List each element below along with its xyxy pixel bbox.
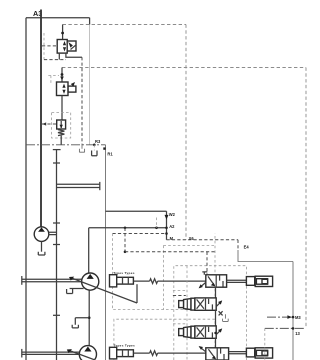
relief valve V2 internal arrow: [62, 84, 65, 94]
wire valve V2 riser dashed: [61, 68, 63, 83]
node junction dot 13: [292, 327, 295, 330]
tank symbol drain elbow cup: [72, 325, 78, 328]
tank symbol P1 drain cup: [67, 289, 73, 294]
wire V2 pilot sense dashed grey: [48, 75, 59, 77]
wire right header drop x89.6: [89, 18, 91, 25]
wire V1 drain stub left: [58, 53, 60, 60]
relief valve V2 pilot stage box: [68, 86, 76, 92]
wire grey drop x264.8: [264, 328, 266, 360]
solenoid arrow DV2: [216, 301, 221, 306]
solenoid SV2 cone: [184, 299, 191, 310]
spring REG1: [150, 279, 158, 284]
arrowhead solenoid DV4: [199, 346, 203, 350]
wire pilot grey dash y290.6: [173, 290, 187, 292]
svg-text:W2: W2: [169, 212, 176, 217]
enclosure dashed box E3 valve group: [174, 266, 247, 360]
svg-text:R3: R3: [95, 139, 101, 144]
wire R line corner down x105.5: [105, 145, 107, 360]
solenoid arrow DV3: [216, 329, 221, 334]
relief valve V1 pilot slash: [71, 45, 76, 49]
solenoid SV2 flange: [191, 298, 195, 310]
pump P1 circle: [82, 273, 99, 290]
solenoid arrow DV4: [200, 347, 206, 352]
wire grey pilot stub x156.5: [156, 218, 158, 228]
tank symbol mid cup: [223, 314, 229, 321]
node dot DV3 right: [214, 332, 216, 334]
pump P1 triangle: [87, 274, 94, 279]
wire REG2 link to spring: [133, 352, 149, 354]
plug X symbol mid: [219, 311, 223, 315]
cap mark above DV1: [202, 272, 207, 275]
svg-text:E4: E4: [244, 245, 250, 250]
pump P2 triangle: [84, 347, 91, 352]
gear pump P0 circle: [34, 227, 49, 242]
solenoid SV3 end cap: [179, 329, 184, 336]
valve DV1 body: [206, 275, 227, 287]
port P2 double line: [22, 352, 80, 354]
valve DV1 right port marks: [220, 275, 223, 286]
wire pilot grey dash y323.8: [173, 323, 187, 325]
enclosure grey dashed vertical x187: [186, 266, 188, 360]
node drain junction dot: [88, 316, 91, 319]
port S flange double line: [57, 184, 100, 187]
wire P1 case drain: [70, 288, 84, 290]
arrowhead V2 riser down: [60, 77, 64, 81]
svg-text:M: M: [170, 236, 174, 241]
pump P2 variable arrow diagonal: [68, 350, 95, 360]
wire V1 pilot sense dashed: [42, 45, 57, 47]
arrowhead V3 pilot: [42, 122, 46, 125]
arrowhead M3: [287, 315, 292, 319]
valve DV4 body: [206, 348, 229, 360]
arrowhead DV1 left arrow: [211, 283, 215, 287]
wire V3 drain to return: [60, 136, 62, 145]
svg-text:13: 13: [295, 331, 300, 336]
arrowhead DV4 left arrow: [212, 356, 216, 360]
wire P1 feedback vertical: [136, 284, 138, 303]
node junction dot A2 end: [165, 227, 168, 230]
wire M dashed line y233.5: [113, 233, 167, 235]
svg-text:X6: X6: [189, 236, 195, 241]
actuator CYL2 cap square: [246, 348, 254, 357]
wire X6 dashed drop x238: [237, 240, 239, 250]
enclosure dashed box valve V3: [52, 113, 71, 139]
actuator CYL1 inner box: [262, 279, 268, 283]
wire DV3 to DV4 connector: [215, 338, 217, 348]
arrowhead solenoid arrow DV3: [218, 328, 222, 332]
wire W2 drop vertical x166.5: [166, 211, 168, 240]
relief valve V3 arrowhead: [60, 125, 63, 129]
relief valve V3 internal arrow: [60, 121, 62, 128]
gear pump P0 outlet double line: [49, 232, 57, 234]
actuator CYL1 inner piston: [256, 279, 267, 285]
solenoid arrow DV1: [200, 282, 206, 287]
valve DV1 left arrow: [208, 276, 215, 285]
wire pilot dashed vertical x186: [185, 25, 187, 240]
tank symbol below gear pump: [38, 252, 45, 255]
node junction dot M3: [292, 316, 295, 319]
actuator CYL2 inner box: [262, 351, 268, 355]
regulator REG2 body box: [117, 350, 134, 357]
svg-text:R1: R1: [107, 152, 113, 157]
node junction dot V1 riser: [61, 32, 64, 35]
wire V3 pilot sense dashed: [42, 123, 57, 125]
relief valve V2 body: [57, 82, 69, 96]
wire pilot dashed line y24 to x186: [63, 24, 186, 26]
tank symbol T1 below x82: [79, 145, 84, 152]
valve DV3 divider: [205, 326, 207, 338]
wire DV1 link double line: [227, 280, 247, 282]
relief valve V1 body: [57, 40, 67, 54]
fitting tick y223: [53, 222, 60, 224]
enclosure dashed box E2 pump2 group: [114, 319, 215, 360]
wire drain dashed bus x82: [81, 57, 83, 145]
relief valve V1 pilot stage box: [67, 41, 76, 51]
gear pump P0 drain line: [41, 241, 43, 251]
wire main pressure line x41: [40, 10, 42, 227]
port S end cap: [99, 182, 101, 190]
valve DV3 body: [195, 326, 216, 338]
spring valve V3: [58, 130, 64, 136]
solenoid SV3 cone bar: [186, 327, 188, 337]
wire E4 line grey: [238, 250, 293, 360]
wire V2 to V3 line: [61, 96, 63, 121]
wire pump column x89 upper: [88, 228, 90, 273]
wire tank bus x56.5: [56, 150, 58, 360]
arrowhead P1 variable arrow: [69, 277, 74, 281]
wire pilot dashed vertical x306: [305, 68, 307, 329]
relief valve V2 pilot arrow: [71, 82, 75, 87]
regulator REG2 internal divider: [123, 350, 129, 357]
regulator REG1 body box: [117, 277, 134, 284]
wire pilot dashed y251.8: [125, 251, 215, 253]
regulator REG1 internal divider: [123, 277, 129, 284]
node R1 square junction: [103, 147, 105, 149]
valve DV3 crossed arrows: [197, 327, 204, 336]
actuator CYL2 outer body: [255, 348, 272, 358]
solenoid SV2 cone bar: [186, 299, 188, 309]
wire valve V1 riser: [62, 25, 64, 40]
wire 13 dash-dot line y328.4: [265, 327, 304, 329]
wire spring line to valve row4: [158, 352, 206, 354]
gear pump P0 triangle: [38, 227, 45, 231]
wire DV2 to DV3 connector: [215, 310, 217, 326]
fitting tick y315.3: [53, 314, 60, 316]
node junction dot pilot: [124, 251, 127, 254]
valve DV2 divider: [205, 298, 207, 310]
spring REG2: [150, 351, 158, 356]
fitting tick y244.5: [53, 244, 60, 246]
wire V1 drain stub right to x82: [66, 53, 82, 57]
node junction dot return header: [93, 144, 96, 147]
wire X6 dashed line y239.8: [167, 239, 239, 241]
wire M3 dash-dot arrow: [267, 316, 288, 318]
actuator CYL2 inner piston: [256, 350, 267, 356]
pump P2 circle: [79, 346, 96, 360]
valve DV2 right port marks: [209, 299, 213, 310]
node junction dot V2 riser: [61, 73, 64, 76]
svg-text:Types Types: Types Types: [113, 271, 135, 275]
arrowhead solenoid arrow DV2: [218, 300, 222, 304]
valve DV2 crossed arrows: [197, 299, 204, 308]
port P1 flange cap: [21, 276, 23, 285]
valve DV3 right port marks: [209, 327, 213, 338]
wire top header horizontal: [26, 17, 90, 19]
svg-text:A2: A2: [169, 224, 175, 229]
wire REG1 link to spring: [133, 280, 149, 282]
wire pilot dark dash y295.5: [173, 295, 186, 297]
wire tank line cap x56.5: [53, 149, 61, 151]
valve DV4 left arrow: [208, 349, 215, 358]
relief valve V3 body: [57, 120, 66, 129]
enclosure dashed bottom valve V1: [44, 59, 66, 61]
wire W2 line y211.2: [106, 210, 167, 212]
wire pilot dash-dot x125 drop: [124, 228, 126, 252]
relief valve V1 pilot arrow: [68, 42, 73, 48]
tank symbol T2 cup: [92, 151, 97, 156]
wire left vertical bus x26: [25, 18, 27, 360]
wire pilot dashed drop x207: [206, 252, 208, 275]
wire V2 pilot grey corner: [50, 76, 52, 84]
actuator CYL1 cap square: [246, 277, 254, 286]
solenoid SV3 flange: [191, 326, 195, 338]
wire DV4 link double line: [229, 352, 247, 354]
regulator REG1 cap box: [110, 275, 117, 287]
solenoid SV3 cone: [184, 327, 191, 338]
fitting tick y163: [53, 162, 60, 164]
node junction dot M end: [165, 232, 168, 235]
arrowhead W2 drop: [165, 215, 169, 220]
wire pilot dashed line y66 to x306: [62, 67, 306, 69]
valve DV1 divider: [215, 275, 217, 287]
wire grey solid x89.5: [89, 25, 91, 145]
solenoid SV2 end cap: [179, 301, 184, 308]
wire spring line to valve row1: [158, 280, 206, 282]
svg-text:M3: M3: [295, 315, 301, 320]
arrowhead P2 variable arrow: [67, 349, 72, 353]
node junction dot A2 x156.5: [155, 227, 158, 230]
valve DV4 divider: [216, 348, 218, 360]
tank symbol T2 below dot: [93, 145, 95, 151]
pump P1 variable arrow diagonal: [70, 278, 137, 304]
wire pump column x89 between pumps: [88, 290, 90, 345]
wire DV1 to DV2 connector: [215, 287, 217, 298]
regulator REG2 cap box: [110, 347, 117, 359]
actuator CYL1 outer body: [255, 276, 272, 286]
port P2 flange cap: [21, 349, 23, 358]
wire drain elbow: [75, 318, 89, 325]
node junction dot A2 x125: [124, 227, 127, 230]
valve DV2 body: [195, 298, 216, 310]
wire feed corner x89 y228: [89, 227, 167, 229]
enclosure dashed box E1 pump1 group: [113, 234, 216, 310]
enclosure dashed left edge valve V1: [43, 33, 45, 60]
relief valve V1 internal arrow: [63, 41, 66, 52]
wire return header dash-dot y144.8: [26, 144, 106, 146]
enclosure dashed inner box E1b: [163, 246, 215, 310]
valve DV4 right port marks: [221, 348, 224, 359]
port P1 double line: [22, 279, 82, 281]
arrowhead solenoid DV1: [199, 284, 203, 288]
